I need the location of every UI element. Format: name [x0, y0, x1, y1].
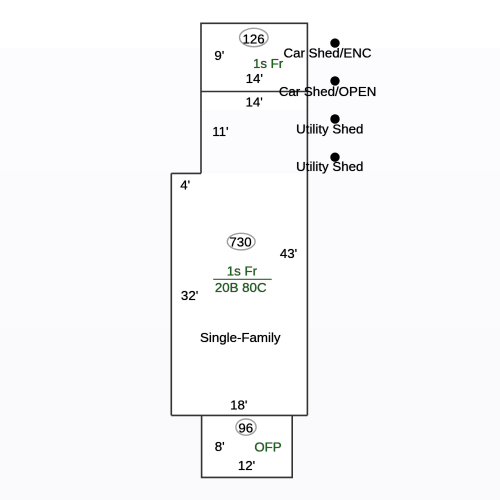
- svg-text:32': 32': [181, 288, 198, 303]
- svg-text:1s Fr: 1s Fr: [253, 56, 284, 71]
- svg-text:Utility Shed: Utility Shed: [296, 121, 363, 136]
- svg-text:1s Fr: 1s Fr: [227, 263, 258, 278]
- svg-text:Car Shed/OPEN: Car Shed/OPEN: [279, 84, 377, 99]
- svg-text:12': 12': [238, 458, 255, 473]
- svg-text:8': 8': [215, 439, 225, 454]
- svg-text:14': 14': [246, 94, 263, 109]
- svg-text:96: 96: [238, 421, 253, 436]
- svg-text:11': 11': [212, 124, 228, 139]
- svg-text:126: 126: [243, 31, 265, 46]
- svg-text:730: 730: [229, 235, 251, 250]
- svg-text:9': 9': [214, 48, 224, 63]
- svg-text:Utility Shed: Utility Shed: [296, 159, 363, 174]
- svg-text:4': 4': [180, 178, 190, 193]
- svg-text:OFP: OFP: [254, 439, 281, 454]
- svg-text:20B 80C: 20B 80C: [215, 280, 267, 295]
- svg-text:Single-Family: Single-Family: [200, 330, 281, 345]
- svg-text:14': 14': [246, 71, 263, 86]
- svg-text:43': 43': [280, 246, 297, 261]
- svg-text:Car Shed/ENC: Car Shed/ENC: [284, 45, 372, 60]
- svg-text:18': 18': [230, 397, 247, 412]
